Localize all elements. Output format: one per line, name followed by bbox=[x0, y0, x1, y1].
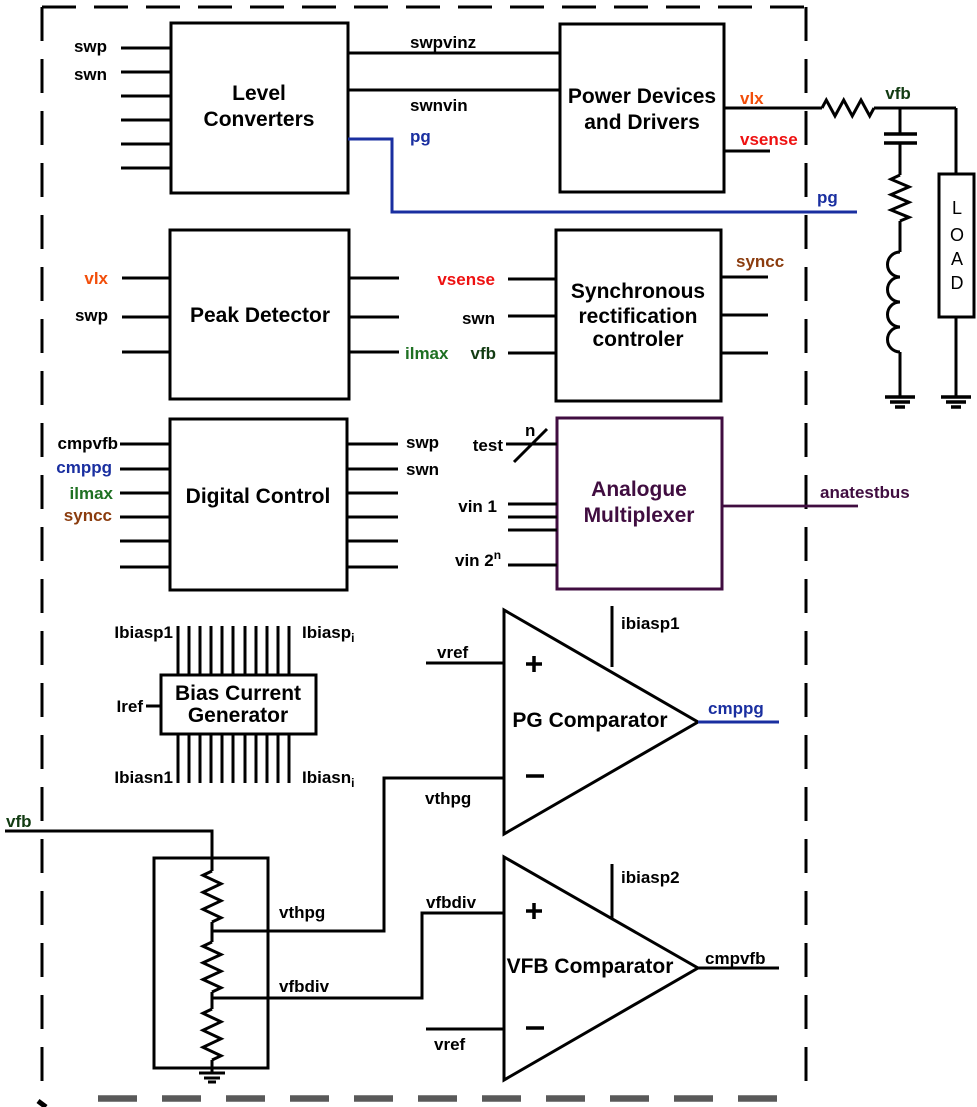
svg-text:swn: swn bbox=[74, 65, 107, 84]
wire resistor R2 to inductor L1 bbox=[899, 221, 902, 252]
chip boundary dashed border bbox=[42, 7, 806, 1098]
svg-text:vfbdiv: vfbdiv bbox=[279, 977, 330, 996]
wire output 3 of Digital Control bbox=[347, 492, 398, 495]
svg-text:Analogue: Analogue bbox=[591, 478, 687, 501]
wire capacitor to resistor R2 bbox=[899, 143, 902, 175]
svg-text:swp: swp bbox=[74, 37, 107, 56]
wire input 6 to Level Converters bbox=[121, 167, 171, 170]
svg-text:Level: Level bbox=[232, 82, 286, 105]
svg-text:PG Comparator: PG Comparator bbox=[512, 709, 667, 732]
wire swn output of Digital Control bbox=[347, 468, 398, 471]
svg-text:syncc: syncc bbox=[736, 252, 784, 271]
svg-text:vref: vref bbox=[437, 643, 469, 662]
svg-text:vlx: vlx bbox=[740, 89, 764, 108]
svg-text:vsense: vsense bbox=[437, 270, 495, 289]
svg-text:cmppg: cmppg bbox=[708, 699, 764, 718]
wire vfb to divider bbox=[5, 831, 212, 871]
wire vsense output of Power Devices bbox=[724, 150, 770, 153]
wire vfb node horizontal bbox=[874, 107, 956, 110]
wire vin input mid to multiplexer bbox=[508, 516, 557, 519]
svg-text:swn: swn bbox=[406, 460, 439, 479]
svg-text:Peak Detector: Peak Detector bbox=[190, 304, 330, 327]
wire cmppg input to Digital Control bbox=[120, 468, 170, 471]
block Analogue Multiplexer bbox=[557, 418, 722, 589]
svg-text:vsense: vsense bbox=[740, 130, 798, 149]
svg-text:Synchronous: Synchronous bbox=[571, 280, 705, 303]
svg-text:vfb: vfb bbox=[6, 812, 32, 831]
wire vthpg from divider tap to PG Comparator bbox=[212, 778, 504, 931]
svg-text:pg: pg bbox=[817, 188, 838, 207]
svg-text:A: A bbox=[951, 249, 963, 269]
wire input 5 to Digital Control bbox=[120, 540, 170, 543]
svg-text:vfbdiv: vfbdiv bbox=[426, 893, 477, 912]
wire vfb junction down to capacitor bbox=[899, 108, 902, 134]
svg-text:Multiplexer: Multiplexer bbox=[584, 504, 695, 527]
svg-text:swpvinz: swpvinz bbox=[410, 33, 476, 52]
svg-text:cmpvfb: cmpvfb bbox=[705, 949, 765, 968]
minus input marking PG Comparator bbox=[526, 774, 544, 778]
svg-text:vfb: vfb bbox=[885, 84, 911, 103]
svg-text:anatestbus: anatestbus bbox=[820, 483, 910, 502]
wire syncc input to Digital Control bbox=[120, 516, 170, 519]
wire input 3 to Peak Detector bbox=[122, 351, 170, 354]
wire input 4 to Level Converters bbox=[121, 119, 171, 122]
resistor R5 divider bottom bbox=[203, 1009, 221, 1060]
block Power Devices and Drivers bbox=[560, 24, 724, 192]
svg-text:swp: swp bbox=[75, 306, 108, 325]
svg-text:vin 1: vin 1 bbox=[458, 497, 497, 516]
wire LOAD to ground bbox=[955, 317, 958, 397]
svg-text:ibiasp2: ibiasp2 bbox=[621, 868, 680, 887]
svg-text:controler: controler bbox=[592, 328, 683, 351]
wire swn input to sync controller bbox=[508, 315, 556, 318]
LOAD box bbox=[939, 174, 974, 317]
svg-text:Ibiasp1: Ibiasp1 bbox=[114, 623, 173, 642]
svg-text:cmpvfb: cmpvfb bbox=[58, 434, 118, 453]
svg-text:vthpg: vthpg bbox=[425, 789, 471, 808]
svg-text:swnvin: swnvin bbox=[410, 96, 468, 115]
wire cmppg output of PG Comparator bbox=[698, 721, 779, 724]
wire swp input to Peak Detector bbox=[122, 316, 170, 319]
wire swn input to Level Converters bbox=[121, 71, 171, 74]
wire sync controller output 3 bbox=[721, 352, 768, 355]
svg-text:Digital Control: Digital Control bbox=[186, 485, 331, 508]
wire output 6 of Digital Control bbox=[347, 566, 398, 569]
svg-text:L: L bbox=[952, 198, 962, 218]
wire Peak Detector output 3 bbox=[349, 351, 399, 354]
svg-text:Bias Current: Bias Current bbox=[175, 682, 301, 705]
wire output 5 of Digital Control bbox=[347, 540, 398, 543]
wire swpvinz Level Converters to Power Devices bbox=[348, 52, 560, 55]
wire vlx output of Power Devices bbox=[724, 107, 822, 110]
plus input marking VFB Comparator bbox=[526, 903, 542, 919]
block Bias Current Generator bbox=[161, 675, 316, 734]
wire vfbdiv from divider tap to VFB Comparator bbox=[212, 913, 504, 998]
block Digital Control bbox=[170, 419, 347, 590]
svg-text:Ibiasn1: Ibiasn1 bbox=[114, 768, 173, 787]
op-amp U1 PG Comparator bbox=[504, 610, 698, 834]
svg-text:Power Devices: Power Devices bbox=[568, 85, 716, 108]
wire ilmax input to Digital Control bbox=[120, 492, 170, 495]
wire inductor to ground bbox=[899, 352, 902, 397]
minus input marking VFB Comparator bbox=[526, 1026, 544, 1030]
wire test input to multiplexer bbox=[506, 443, 557, 446]
wire R5 to ground bbox=[211, 1060, 214, 1073]
wire vref input to PG Comparator bbox=[426, 662, 504, 665]
wire vin 2^n input to multiplexer bbox=[508, 564, 557, 567]
svg-text:rectification: rectification bbox=[578, 305, 697, 328]
bus slash on test wire bbox=[514, 429, 547, 462]
svg-text:vfb: vfb bbox=[471, 344, 497, 363]
block Peak Detector bbox=[170, 230, 349, 399]
wires Ibiasn outputs (bottom) of bias generator bbox=[178, 734, 289, 783]
ground G2 bbox=[941, 397, 971, 407]
svg-text:Generator: Generator bbox=[188, 704, 288, 727]
wire vref input to VFB Comparator bbox=[426, 1028, 504, 1031]
svg-text:n: n bbox=[525, 421, 535, 440]
svg-text:vref: vref bbox=[434, 1035, 466, 1054]
svg-text:D: D bbox=[951, 273, 964, 293]
wire vin 1 input to multiplexer bbox=[508, 503, 557, 506]
wire R4 to R5 bbox=[211, 992, 214, 1009]
block Synchronous rectification controler bbox=[556, 230, 721, 401]
resistor R2 (vertical) bbox=[891, 175, 909, 221]
svg-text:cmppg: cmppg bbox=[56, 458, 112, 477]
wire Iref input to bias generator bbox=[146, 705, 161, 708]
resistor R3 divider top bbox=[203, 871, 221, 922]
wire swnvin Level Converters to Power Devices bbox=[348, 89, 560, 92]
wire input 6 to Digital Control bbox=[120, 566, 170, 569]
plus input marking PG Comparator bbox=[526, 656, 542, 672]
wire syncc output of sync controller bbox=[721, 276, 768, 279]
bottom-left corner mark bbox=[38, 1101, 46, 1107]
block Level Converters bbox=[171, 23, 348, 193]
wire input 3 to Level Converters bbox=[121, 95, 171, 98]
wire sync controller output 2 bbox=[721, 314, 768, 317]
wire vlx input to Peak Detector bbox=[122, 277, 170, 280]
ground G3 divider bbox=[199, 1073, 225, 1082]
svg-text:ilmax: ilmax bbox=[405, 344, 449, 363]
svg-text:test: test bbox=[473, 436, 504, 455]
wire swp output of Digital Control bbox=[347, 443, 398, 446]
svg-text:Ibiaspi: Ibiaspi bbox=[302, 623, 354, 645]
wire swp input to Level Converters bbox=[121, 47, 171, 50]
wire vsense input to sync controller bbox=[508, 278, 556, 281]
wire vfb to LOAD bbox=[955, 108, 958, 173]
wire vin input mid2 to multiplexer bbox=[508, 529, 557, 532]
wire vfb input to sync controller bbox=[508, 352, 556, 355]
ground G1 bbox=[885, 397, 915, 407]
inductor L1 bbox=[888, 252, 901, 352]
capacitor C1 bbox=[884, 134, 917, 143]
svg-text:vthpg: vthpg bbox=[279, 903, 325, 922]
svg-text:swp: swp bbox=[406, 433, 439, 452]
svg-text:ilmax: ilmax bbox=[70, 484, 114, 503]
svg-text:ibiasp1: ibiasp1 bbox=[621, 614, 680, 633]
divider enclosure box bbox=[154, 858, 268, 1068]
wire output 4 of Digital Control bbox=[347, 516, 398, 519]
wire anatestbus output of multiplexer bbox=[722, 505, 858, 508]
svg-text:VFB Comparator: VFB Comparator bbox=[507, 955, 674, 978]
wire ibiasp2 to VFB Comparator bbox=[611, 864, 614, 919]
wire cmpvfb input to Digital Control bbox=[120, 443, 170, 446]
svg-text:Iref: Iref bbox=[117, 697, 144, 716]
svg-text:pg: pg bbox=[410, 127, 431, 146]
svg-text:O: O bbox=[950, 225, 964, 245]
wire Peak Detector output 2 bbox=[349, 316, 399, 319]
svg-text:Ibiasni: Ibiasni bbox=[302, 768, 354, 790]
svg-text:and Drivers: and Drivers bbox=[584, 111, 700, 134]
bottom thick dashed boundary bbox=[98, 1095, 790, 1102]
resistor R4 divider middle bbox=[203, 942, 221, 992]
wire pg (blue) from Level Converters across chip bbox=[348, 139, 857, 212]
svg-text:swn: swn bbox=[462, 309, 495, 328]
wire ibiasp1 to PG Comparator bbox=[611, 606, 614, 667]
wire input 5 to Level Converters bbox=[121, 143, 171, 146]
svg-text:Converters: Converters bbox=[204, 108, 315, 131]
wire Peak Detector output 1 bbox=[349, 277, 399, 280]
wire cmpvfb output of VFB Comparator bbox=[698, 967, 779, 970]
svg-text:vlx: vlx bbox=[84, 269, 108, 288]
op-amp U2 VFB Comparator bbox=[504, 857, 698, 1080]
wires Ibiasp outputs (top) of bias generator bbox=[178, 626, 289, 675]
wire R3 to R4 bbox=[211, 922, 214, 942]
resistor R1 (output filter, horizontal) bbox=[822, 100, 874, 116]
svg-text:syncc: syncc bbox=[64, 506, 112, 525]
